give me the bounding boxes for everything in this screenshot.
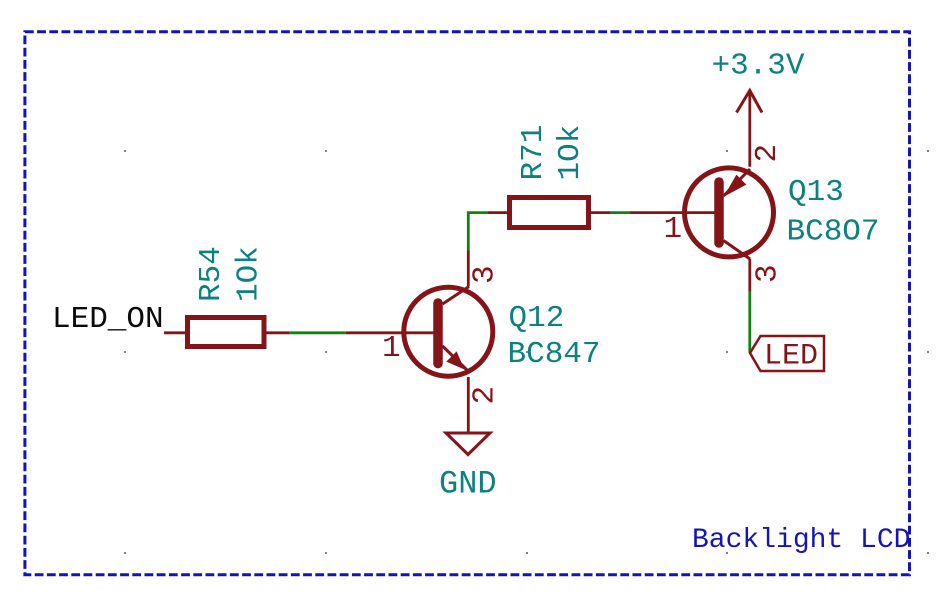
wire Q12 collector to R71 — [468, 213, 488, 251]
transistor Q13 — [685, 168, 774, 259]
svg-text:LED_ON: LED_ON — [52, 302, 164, 337]
Q13 pin number 2 — [750, 144, 785, 163]
Q13 collector pin — [748, 259, 751, 292]
svg-text:2: 2 — [750, 144, 785, 163]
svg-text:3: 3 — [468, 265, 503, 284]
Q12 pin number 2 — [468, 386, 503, 405]
R54 right pin — [264, 331, 289, 334]
R71 left pin — [488, 211, 510, 214]
label LED_ON — [52, 302, 164, 337]
svg-text:3: 3 — [751, 264, 786, 283]
svg-text:1: 1 — [382, 331, 401, 366]
sheet title Backlight LCD — [692, 525, 910, 556]
grid dots — [124, 150, 929, 554]
Q13 pin number 3 — [751, 264, 786, 283]
wire Q13 collector to LED label — [748, 292, 751, 353]
svg-text:Q13: Q13 — [788, 175, 844, 210]
Q12 pin number 3 — [468, 265, 503, 284]
svg-text:BC8O7: BC8O7 — [787, 215, 880, 250]
Q12 pin number 1 — [382, 331, 401, 366]
svg-text:Q12: Q12 — [509, 301, 565, 336]
svg-text:1Ok: 1Ok — [232, 246, 267, 302]
Q12 collector pin — [467, 251, 470, 287]
svg-text:R54: R54 — [194, 246, 229, 302]
Q12 emitter pin — [467, 377, 470, 433]
Q13 value BC807 — [787, 215, 880, 250]
svg-text:+3.3V: +3.3V — [712, 49, 805, 84]
Q13 base pin — [630, 211, 719, 214]
wire R54 to Q12 base — [289, 331, 346, 334]
R54 reference label — [194, 246, 229, 302]
R54 value 10k — [232, 246, 267, 302]
ground label GND — [439, 466, 497, 503]
R71 value 10k — [553, 125, 588, 181]
svg-text:Backlight LCD: Backlight LCD — [692, 525, 910, 556]
svg-text:1: 1 — [664, 212, 683, 247]
global label LED — [750, 336, 824, 374]
R54 left pin — [164, 331, 188, 334]
svg-text:LED: LED — [764, 340, 818, 374]
R71 right pin — [589, 211, 611, 214]
power label +3.3V — [712, 49, 805, 84]
wire R71 to Q13 base — [610, 211, 630, 214]
svg-text:1Ok: 1Ok — [553, 125, 588, 181]
Q13 emitter pin — [748, 91, 751, 167]
resistor R54 — [188, 318, 265, 347]
Q12 reference label — [509, 301, 565, 336]
Q12 value BC847 — [508, 337, 601, 372]
svg-text:2: 2 — [468, 386, 503, 405]
svg-text:GND: GND — [439, 466, 497, 503]
svg-text:BC847: BC847 — [508, 337, 601, 372]
resistor R71 — [510, 198, 589, 228]
transistor Q12 — [404, 287, 493, 377]
Q12 base pin — [346, 331, 438, 334]
ground symbol — [446, 433, 490, 455]
power symbol +3.3V arrow — [737, 91, 763, 113]
Q13 pin number 1 — [664, 212, 683, 247]
Q13 reference label — [788, 175, 844, 210]
svg-text:R71: R71 — [516, 125, 551, 181]
R71 reference label — [516, 125, 551, 181]
